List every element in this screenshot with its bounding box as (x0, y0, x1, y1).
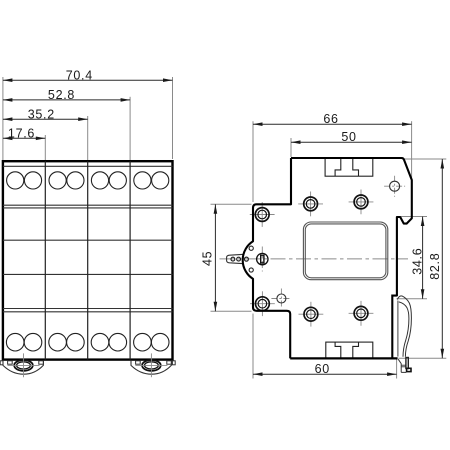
screw E lower-middle (299, 313, 324, 315)
svg-text:45: 45 (201, 251, 215, 266)
extension line 45 bottom (211, 310, 252, 312)
extension line 50 left (290, 138, 292, 157)
screw F lower-right (349, 312, 374, 314)
mounting foot left (3, 361, 43, 374)
small hole H lower-left (271, 298, 291, 300)
screw C upper-right (349, 201, 374, 203)
foot screw left (14, 360, 33, 371)
svg-text:50: 50 (341, 130, 356, 144)
screw A upper-left (250, 214, 275, 216)
dimension line 82.8 (441, 159, 443, 358)
extension line 34.6 top (401, 216, 427, 218)
front body outline (3, 161, 173, 359)
DIN rail spring clip (397, 301, 399, 357)
dimension line 66 (253, 123, 412, 125)
dimension line 70.4 (3, 79, 173, 81)
module separator 1 (44, 161, 46, 359)
dimension line 45 (214, 204, 216, 311)
extension line 17.6 (44, 135, 46, 160)
terminal circles bottom row (6, 333, 169, 351)
center line horizontal (220, 258, 409, 260)
svg-text:35.2: 35.2 (28, 108, 55, 122)
dimension line 52.8 (3, 99, 130, 101)
module separator 3 (129, 161, 131, 359)
screw D lower-left (250, 303, 275, 305)
extension line 52.8 (129, 97, 131, 160)
mounting foot right (131, 361, 171, 374)
extension line 82.8 top (405, 158, 447, 160)
extension line 34.6 bottom (397, 298, 428, 300)
extension line right edge (172, 77, 174, 159)
extension line left edge (2, 77, 4, 160)
dimension line 17.6 (3, 137, 45, 139)
module separator 2 (87, 161, 89, 359)
release pin (227, 254, 244, 263)
screw B upper-middle (298, 203, 323, 205)
svg-text:34.6: 34.6 (411, 248, 425, 275)
window rounded rect inner (305, 224, 386, 278)
extension line 66 left (252, 121, 254, 202)
extension line 82.8 bottom (398, 357, 446, 359)
terminal circles top row (7, 172, 169, 189)
horizontal mid line 2 (3, 273, 173, 275)
bottom recess notch (326, 342, 373, 358)
extension line 60 left (252, 314, 254, 379)
svg-text:82.8: 82.8 (428, 253, 442, 280)
clip foot (398, 359, 406, 372)
dimension line 60 (253, 373, 397, 375)
svg-text:17.6: 17.6 (8, 127, 35, 141)
extension line 45 top (211, 203, 252, 205)
side body bottom edge (290, 357, 397, 359)
dimension line 50 (291, 141, 412, 143)
svg-text:52.8: 52.8 (48, 88, 75, 102)
svg-text:60: 60 (315, 362, 330, 376)
side body lower-right edge (392, 296, 397, 359)
extension line 35.2 (87, 116, 89, 160)
dimension line 35.2 (3, 118, 88, 120)
svg-text:70.4: 70.4 (66, 69, 93, 83)
window rounded rect outer (303, 222, 387, 280)
side body outline upper-right (291, 158, 412, 296)
svg-text:66: 66 (323, 112, 338, 126)
horizontal double line lower (3, 308, 173, 310)
extension line right top (411, 121, 413, 184)
horizontal line below top (3, 165, 173, 167)
slotted screw center (261, 247, 263, 272)
bulge small circles (249, 246, 253, 250)
dimension line 34.6 (422, 217, 424, 299)
horizontal double line upper (3, 204, 173, 206)
horizontal mid line 1 (3, 239, 173, 241)
small hole G top-right (384, 185, 405, 187)
side body left profile (243, 158, 291, 358)
foot screw right (142, 360, 161, 371)
top recess notch (325, 158, 373, 176)
extension line 60 right (396, 360, 398, 379)
